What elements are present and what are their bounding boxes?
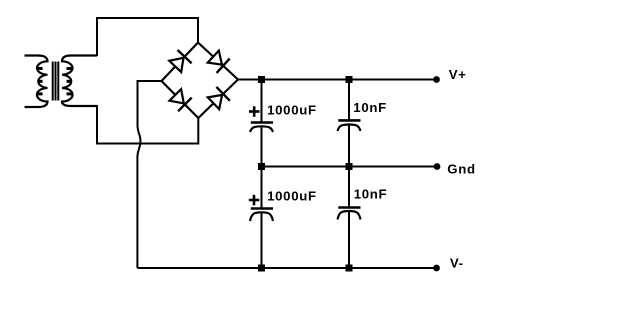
svg-text:V-: V- (450, 255, 464, 270)
transformer T1 core (53, 62, 59, 101)
capacitor C4 (10nF lower) (338, 167, 361, 269)
svg-text:Gnd: Gnd (447, 162, 475, 177)
junction node: V- rail / C4 (346, 265, 353, 272)
diode D4 (bridge) (208, 87, 230, 109)
svg-text:1000uF: 1000uF (267, 103, 317, 118)
junction node: V- rail / C2 (258, 265, 265, 272)
junction node: Gnd rail / C1-C2 (258, 163, 265, 170)
wire: secondary top to bridge top vertex (97, 18, 198, 56)
bridge edge bottom-left (162, 81, 199, 118)
wire: vertical to V- rail with hop over crossing (137, 80, 140, 268)
wire: Gnd rail (262, 166, 435, 168)
junction node: Gnd rail / C3-C4 (346, 163, 353, 170)
junction node: V+ rail / C3 (346, 76, 353, 83)
svg-text:10nF: 10nF (354, 187, 388, 202)
terminal node V+ (433, 76, 440, 83)
diode D2 (bridge) (208, 51, 230, 73)
capacitor C3 (10nF upper) (338, 80, 361, 167)
bridge edge top-right (198, 43, 238, 80)
svg-text:1000uF: 1000uF (267, 189, 317, 204)
polarity plus sign of C1 (249, 106, 260, 117)
junction node: V+ rail / C1 (258, 76, 265, 83)
transformer T1 primary winding (left coil) (25, 56, 48, 108)
svg-text:10nF: 10nF (353, 100, 387, 115)
bridge edge bottom-right (198, 80, 238, 119)
transformer T1 secondary winding (right coil) (62, 56, 97, 107)
terminal node Gnd (434, 163, 441, 170)
capacitor C1 (1000uF upper) (250, 80, 273, 167)
wire: V+ rail (237, 79, 434, 81)
wire: secondary bottom to bridge bottom vertex (97, 105, 198, 144)
wire: bridge left vertex leftward (138, 80, 162, 82)
diode D1 (bridge) (169, 50, 191, 72)
terminal node V- (433, 265, 440, 272)
polarity plus sign of C2 (249, 195, 259, 206)
wire: V- rail (137, 267, 434, 269)
bridge edge top-left (162, 43, 199, 82)
svg-text:V+: V+ (449, 67, 467, 82)
capacitor C2 (1000uF lower) (250, 167, 273, 269)
diode D3 (bridge) (170, 89, 192, 111)
